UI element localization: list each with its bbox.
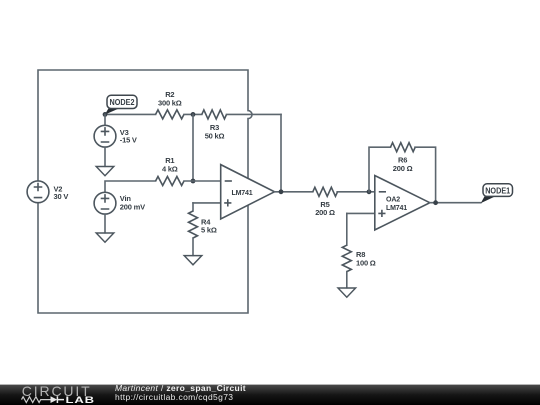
wire: V3 to ground: [104, 148, 106, 167]
svg-text:100 Ω: 100 Ω: [356, 259, 376, 268]
ground below R8: [338, 288, 356, 297]
wire: noninverting input from R4: [193, 202, 221, 204]
resistor R3: [202, 110, 227, 141]
node flag NODE1: [481, 184, 513, 203]
node junction R5/feedback: [367, 189, 372, 194]
resistor R1: [156, 156, 184, 186]
footer bar: [0, 385, 540, 405]
ground below Vin: [96, 233, 114, 242]
CircuitLab logo LAB text: [66, 396, 95, 405]
wire: R3 to feedback corner: [227, 113, 282, 115]
wire: OA2 output to NODE1: [430, 202, 481, 204]
CircuitLab logo wordmark: [22, 383, 92, 399]
ground below R4: [184, 256, 202, 265]
node flag NODE2: [105, 95, 137, 114]
resistor R2: [156, 90, 184, 119]
resistor R4: [189, 203, 217, 256]
wire: junction down to inverting input: [192, 114, 194, 181]
voltage source Vin: [94, 192, 145, 214]
ground below V3: [96, 167, 114, 176]
wire: feedback vertical to OA1 output: [280, 114, 282, 191]
node junction R1/inverting: [191, 179, 196, 184]
wire: R1 to OA1 inverting input: [184, 180, 221, 182]
wire: OA2 feedback loop right: [415, 147, 436, 203]
svg-text:5 kΩ: 5 kΩ: [201, 225, 217, 234]
footer attribution text: [115, 383, 246, 402]
svg-text:200 mV: 200 mV: [120, 202, 145, 211]
wire: Vin top / R1 input: [105, 181, 156, 192]
node junction R2/R3: [191, 112, 196, 117]
svg-text:http://circuitlab.com/cqd5g73: http://circuitlab.com/cqd5g73: [115, 392, 233, 402]
voltage source V2: [27, 181, 68, 203]
svg-text:200 Ω: 200 Ω: [315, 208, 335, 217]
voltage source V3: [94, 114, 137, 147]
wire: OA2 noninverting input from R8: [347, 212, 375, 214]
wire: Vin to ground: [104, 215, 106, 233]
svg-text:50 kΩ: 50 kΩ: [205, 132, 225, 141]
svg-text:LM741: LM741: [232, 188, 253, 197]
wire: node2 to R2: [105, 113, 156, 115]
wire: OA1 output: [275, 191, 313, 193]
op-amp OA1 LM741: [221, 165, 275, 219]
svg-text:LAB: LAB: [66, 396, 95, 405]
wire: R5 to OA2 inverting input: [337, 191, 375, 193]
node junction OA2 output: [433, 200, 438, 205]
svg-text:R8: R8: [356, 250, 365, 259]
node junction NODE2: [103, 112, 108, 117]
node junction OA1 output: [279, 189, 284, 194]
wire: OA2 feedback loop left: [369, 147, 391, 192]
svg-text:4 kΩ: 4 kΩ: [162, 164, 178, 173]
resistor R6: [391, 143, 416, 173]
wire: R2 to junction: [184, 113, 202, 115]
svg-text:200 Ω: 200 Ω: [393, 164, 413, 173]
svg-text:LM741: LM741: [386, 203, 407, 212]
wire: outer supply loop (V2 to rails): [38, 70, 252, 313]
svg-text:300 kΩ: 300 kΩ: [158, 98, 182, 107]
svg-text:-15 V: -15 V: [120, 136, 137, 145]
CircuitLab logo resistor-diode glyph: [22, 396, 65, 403]
resistor R5: [313, 187, 338, 217]
svg-text:NODE1: NODE1: [485, 185, 510, 195]
svg-text:30 V: 30 V: [54, 192, 69, 201]
op-amp OA2 LM741: [375, 176, 430, 230]
svg-text:NODE2: NODE2: [110, 97, 135, 107]
resistor R8: [342, 213, 375, 287]
